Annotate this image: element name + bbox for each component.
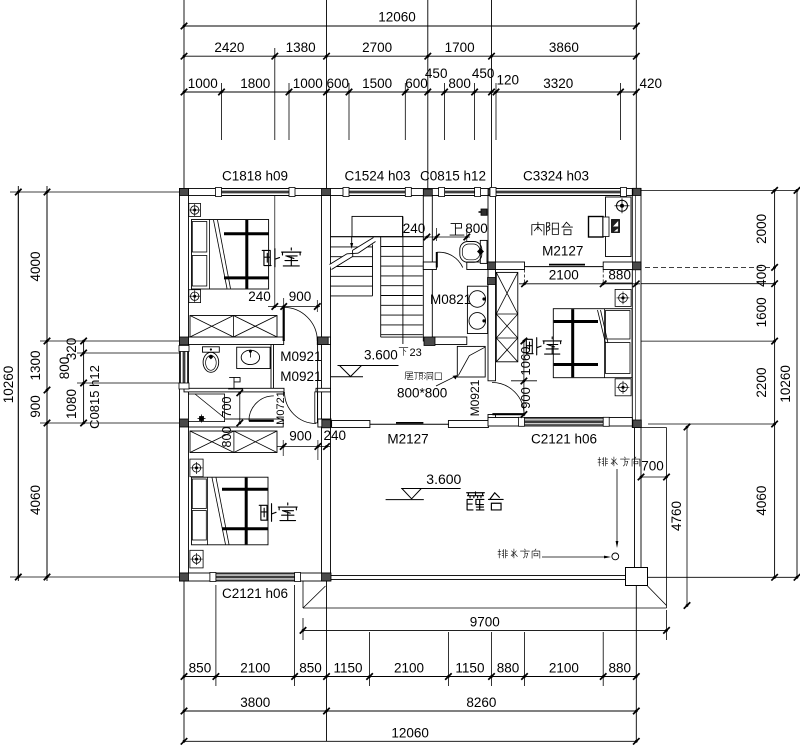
stair break line: [330, 238, 376, 270]
svg-text:240: 240: [403, 221, 426, 236]
svg-text:9700: 9700: [470, 614, 500, 629]
svg-text:3860: 3860: [549, 40, 579, 55]
toilet1 wash basin: [237, 347, 270, 368]
svg-text:420: 420: [640, 76, 663, 91]
right chain 2000/400/1600/2200/4060: [774, 190, 776, 577]
bottom small chain: [184, 676, 636, 678]
structural columns: [180, 189, 189, 196]
svg-text:1150: 1150: [455, 661, 484, 676]
bedroom1 nightstand bottom: [189, 290, 201, 303]
stair down arrow: [351, 237, 353, 243]
interior dim 240/900 (bedroom1 door): [268, 306, 320, 308]
svg-text:900: 900: [518, 387, 533, 409]
room label toilet2: [450, 224, 464, 236]
svg-text:450: 450: [472, 66, 495, 81]
svg-text:4000: 4000: [28, 251, 43, 281]
svg-text:3.600: 3.600: [364, 348, 398, 363]
top dim row small chain: [184, 91, 636, 93]
svg-text:2420: 2420: [214, 40, 244, 55]
svg-text:880: 880: [608, 268, 631, 283]
window C1524 h03: [349, 188, 405, 190]
window C0815 h12 (left wall): [180, 352, 182, 384]
svg-text:2100: 2100: [394, 661, 424, 676]
desk monitor glyph: [612, 220, 620, 233]
svg-text:900: 900: [289, 429, 312, 444]
svg-text:850: 850: [299, 661, 322, 676]
interior dim 900/240 (bedroom2 door): [277, 446, 330, 448]
stair left flight treads: [331, 246, 373, 248]
drain circle: [612, 553, 619, 560]
window C2121 h06 (bottom left): [216, 573, 295, 575]
wall y3 horizontal segments: [189, 419, 284, 427]
svg-text:1380: 1380: [286, 40, 316, 55]
svg-text:4760: 4760: [669, 501, 684, 531]
terrace parapet right: [635, 428, 642, 568]
svg-text:1600: 1600: [754, 297, 769, 327]
svg-text:2100: 2100: [240, 661, 270, 676]
svg-text:8260: 8260: [466, 695, 496, 710]
door M0921 bedroom1 (wall y1) leaf+arc: [283, 307, 285, 341]
bedroom2 nightstand bottom: [190, 550, 203, 568]
svg-text:880: 880: [497, 661, 520, 676]
svg-text:800: 800: [448, 76, 471, 91]
svg-text:240: 240: [248, 289, 271, 304]
dim 700 (parapet offset): [641, 476, 667, 478]
balcony chair: [589, 217, 604, 238]
svg-text:3800: 3800: [240, 695, 270, 710]
bottom dim 12060: [184, 740, 636, 742]
svg-text:M0921: M0921: [280, 369, 321, 384]
svg-text:1150: 1150: [334, 661, 363, 676]
small wall basin (top toilet): [481, 209, 487, 215]
drainage note 1 + arrow: [598, 457, 608, 466]
svg-text:880: 880: [608, 661, 631, 676]
window C1818 h09: [222, 188, 290, 190]
svg-text:900: 900: [289, 289, 312, 304]
balcony desk: [606, 197, 632, 257]
right outer dim 10260: [796, 190, 798, 577]
svg-text:800: 800: [220, 427, 234, 448]
room label terrace: [467, 492, 485, 510]
svg-text:3320: 3320: [543, 76, 573, 91]
room label toilet1: [229, 377, 243, 389]
top dim row 12060: [184, 25, 636, 27]
interior wall C axis (stair left / bedrooms right): [322, 196, 331, 574]
bottom wall band (bedroom + terrace edge): [180, 573, 331, 581]
bedroom2 bed: [192, 477, 269, 545]
room label bedroom1: [262, 249, 279, 267]
bedroom3 wardrobe: [496, 272, 518, 361]
svg-text:M0821: M0821: [430, 292, 471, 307]
terrace corner column: [626, 568, 648, 586]
svg-text:12060: 12060: [391, 725, 429, 740]
svg-text:800*800: 800*800: [397, 386, 447, 401]
terrace parapet bottom: [331, 576, 626, 580]
svg-text:C1818 h09: C1818 h09: [222, 169, 288, 184]
window C0815 h12 (top): [445, 188, 475, 190]
sliding door M2127 (balcony, wall y20): [525, 266, 604, 268]
door M0921 bedroom2 (wall y2) leaf+arc: [315, 392, 318, 423]
wall y1 horizontal segments: [189, 337, 284, 345]
window C3324 h03: [496, 188, 621, 190]
svg-text:10260: 10260: [1, 366, 16, 404]
bedroom2 nightstand top: [190, 459, 203, 477]
interior dim 700 (shower door): [239, 393, 241, 423]
balcony ceiling symbol: [617, 200, 628, 211]
axis B extension line through bedroom1: [274, 196, 276, 307]
svg-text:450: 450: [425, 66, 448, 81]
svg-text:800: 800: [57, 357, 72, 380]
svg-text:1060: 1060: [518, 347, 533, 376]
svg-text:240: 240: [324, 428, 347, 443]
svg-text:1700: 1700: [445, 40, 475, 55]
interior dim 240/800 (top toilet door): [423, 236, 470, 238]
svg-text:C1524 h03: C1524 h03: [344, 169, 410, 184]
left chain 4000/1300/900/4060: [46, 192, 48, 577]
svg-text:700: 700: [641, 459, 664, 474]
wall y2 horizontal segments: [184, 388, 284, 392]
balcony 400 ledge line: [604, 282, 632, 284]
room label bedroom3: [525, 338, 541, 355]
bottom dim 9700: [302, 618, 304, 640]
roof opening text: [405, 372, 413, 380]
room label bedroom2: [259, 504, 276, 522]
interior wall D axis (stair right): [423, 196, 432, 342]
svg-text:23: 23: [410, 347, 422, 359]
stair landing: [352, 216, 403, 236]
roof opening symbol: [457, 346, 485, 377]
left outer dim 10260: [17, 192, 19, 577]
dim 4760 (terrace height): [686, 427, 688, 606]
svg-text:C0815 h12: C0815 h12: [420, 169, 486, 184]
bedroom2 wardrobe: [190, 431, 277, 453]
svg-text:2700: 2700: [362, 40, 392, 55]
svg-text:1000: 1000: [188, 76, 218, 91]
bottom axis extensions: [183, 581, 185, 741]
interior dim 2100/880 (balcony door): [519, 283, 640, 285]
下23 stair annotation: [399, 348, 408, 356]
svg-text:1500: 1500: [362, 76, 392, 91]
bedroom3 door-side dim 1060/900: [523, 341, 525, 415]
left extension lines: [17, 186, 19, 581]
exterior top wall band: [180, 189, 641, 196]
svg-text:120: 120: [497, 73, 520, 88]
svg-text:600: 600: [326, 76, 349, 91]
svg-text:C2121 h06: C2121 h06: [222, 586, 288, 601]
svg-text:M0721: M0721: [275, 391, 287, 425]
svg-text:800: 800: [465, 221, 488, 236]
svg-text:1300: 1300: [28, 350, 43, 380]
svg-text:850: 850: [189, 661, 212, 676]
room label balcony: [532, 222, 544, 235]
drainage note 2 + arrow: [498, 549, 508, 558]
svg-text:2000: 2000: [754, 214, 769, 244]
left exterior wall band: [180, 189, 189, 582]
bottom dim 3800/8260: [184, 710, 636, 712]
door M0921 bedroom3 leaf+arc: [492, 413, 524, 415]
svg-text:C3324 h03: C3324 h03: [523, 169, 589, 184]
top dim row 2420/1380/2700/1700/3860: [184, 55, 636, 57]
door M0721 shower (vestibule) leaf+arc: [249, 420, 274, 422]
left inner chain 320/800/1080: [83, 341, 85, 423]
svg-text:M0921: M0921: [280, 349, 321, 364]
bedroom1 nightstand top: [189, 204, 201, 217]
bedroom3 nightstand bottom: [615, 379, 631, 396]
svg-text:2100: 2100: [549, 268, 579, 283]
svg-text:1000: 1000: [293, 76, 323, 91]
svg-text:4060: 4060: [754, 486, 769, 516]
svg-text:700: 700: [220, 397, 234, 418]
svg-text:1800: 1800: [240, 76, 270, 91]
eave outline around terrace: [302, 581, 304, 608]
right exterior wall band: [632, 189, 641, 428]
door M0821 top toilet leaf+arc: [436, 252, 438, 268]
svg-text:M2127: M2127: [542, 243, 583, 258]
shower: [189, 394, 225, 422]
interior wall E axis (bath/balcony, bedroom left): [488, 196, 496, 267]
bedroom1 wardrobe: [190, 316, 277, 338]
svg-text:3.600: 3.600: [426, 471, 461, 487]
top toilet WC fixture: [480, 240, 487, 263]
svg-text:4060: 4060: [28, 485, 43, 515]
svg-text:C2121 h06: C2121 h06: [531, 432, 597, 447]
svg-text:C0815 h12: C0815 h12: [87, 365, 102, 429]
svg-text:M0921: M0921: [468, 379, 482, 416]
vanity with two basins (hall): [467, 286, 487, 333]
sliding door M2127 (terrace, wall y3): [370, 423, 449, 425]
svg-text:1080: 1080: [64, 389, 79, 419]
svg-text:900: 900: [28, 395, 43, 418]
vestibule side walls: [270, 345, 272, 389]
svg-text:2200: 2200: [754, 368, 769, 398]
wall y20 horizontal segments (2000 line): [423, 262, 436, 270]
bedroom1 bed: [192, 220, 269, 290]
top sub-tick extension lines: [221, 83, 223, 140]
top axis extension lines: [183, 0, 185, 189]
stair landing front edge: [331, 236, 424, 238]
svg-text:12060: 12060: [378, 10, 416, 25]
svg-text:M2127: M2127: [387, 432, 428, 447]
bedroom3 nightstand top: [615, 289, 631, 306]
bedroom3 bed: [553, 309, 632, 378]
stair right flight: [380, 237, 382, 337]
right extension lines: [641, 189, 797, 191]
svg-text:2100: 2100: [549, 661, 579, 676]
window C2121 h06 (bedroom3 bottom): [525, 418, 604, 420]
toilet1 WC fixture: [203, 347, 220, 352]
svg-text:10260: 10260: [778, 365, 793, 403]
